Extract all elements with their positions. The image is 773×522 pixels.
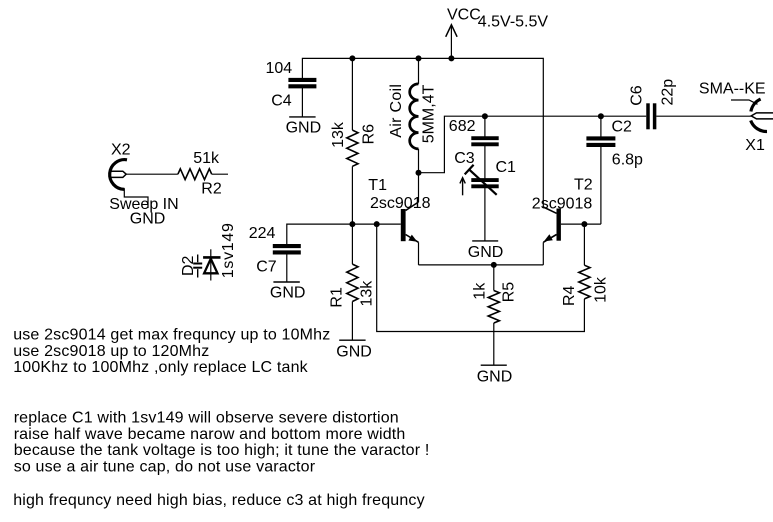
svg-text:SMA--KE: SMA--KE [699, 81, 766, 98]
svg-text:R4: R4 [561, 285, 578, 306]
capacitor C6 22p [629, 79, 752, 130]
connector X1 SMA--KE [699, 81, 773, 154]
junction dot VCC arrow [448, 55, 454, 61]
svg-text:2sc9018: 2sc9018 [532, 195, 593, 212]
ground GND under R1 [336, 340, 372, 360]
power symbol VCC arrow [446, 25, 457, 59]
junction dot C2 top [598, 113, 604, 119]
transistor T1 2sc9018 [368, 173, 430, 265]
svg-text:use 2sc9014 get max frequncy u: use 2sc9014 get max frequncy up to 10Mhz [13, 327, 330, 344]
svg-text:10k: 10k [593, 276, 610, 303]
wire feedback to R4 bottom [377, 224, 585, 331]
wire coil bottom to tank line [419, 116, 647, 173]
junction dot base feedback [374, 221, 380, 227]
svg-text:C2: C2 [612, 118, 633, 135]
svg-text:GND: GND [130, 211, 166, 228]
svg-text:R1: R1 [329, 287, 346, 308]
svg-text:R2: R2 [201, 181, 222, 198]
svg-text:682: 682 [449, 118, 476, 135]
transistor T2 2sc9018 [532, 176, 593, 265]
svg-text:high frequncy need high bias,: high frequncy need high bias, reduce c3 … [13, 492, 425, 509]
svg-text:Air Coil: Air Coil [388, 84, 405, 138]
inductor L1 Air Coil 5MM,4T [388, 58, 438, 172]
svg-text:X1: X1 [745, 137, 765, 154]
svg-text:5MM,4T: 5MM,4T [421, 84, 438, 143]
connector X2 Sweep IN [109, 141, 178, 227]
svg-text:use 2sc9018 up to 120Mhz: use 2sc9018 up to 120Mhz [13, 343, 209, 360]
svg-text:VCC: VCC [447, 6, 481, 23]
svg-text:22p: 22p [660, 79, 677, 106]
capacitor C2 6.8p [586, 116, 643, 224]
svg-text:6.8p: 6.8p [612, 152, 643, 169]
svg-text:C1: C1 [496, 159, 517, 176]
svg-text:replace C1 with 1sv149 will ob: replace C1 with 1sv149 will observe seve… [14, 410, 399, 427]
svg-text:GND: GND [286, 119, 322, 136]
junction dot coil top [416, 55, 422, 61]
svg-text:T2: T2 [574, 176, 593, 193]
resistor R4 10k [561, 224, 609, 306]
junction dot base R1 [349, 221, 355, 227]
wire emitter line [419, 264, 544, 266]
svg-text:C4: C4 [271, 93, 292, 110]
svg-text:2sc9018: 2sc9018 [370, 195, 431, 212]
svg-text:so use a air tune cap, do not: so use a air tune cap, do not use varact… [14, 458, 316, 475]
junction dot R6 top [349, 55, 355, 61]
svg-text:4.5V-5.5V: 4.5V-5.5V [478, 14, 549, 31]
svg-text:R5: R5 [500, 282, 517, 303]
ground GND under C4 [286, 117, 322, 136]
net VCC rail [302, 58, 543, 207]
svg-text:100Khz to 100Mhz ,only replace: 100Khz to 100Mhz ,only replace LC tank [13, 359, 308, 376]
svg-text:C7: C7 [256, 259, 277, 276]
note text block 2 [14, 410, 430, 476]
note text block 1 [13, 327, 330, 377]
svg-text:GND: GND [468, 244, 504, 261]
svg-text:C3: C3 [454, 150, 475, 167]
ground GND under C1 [468, 241, 504, 261]
svg-text:X2: X2 [111, 141, 131, 158]
resistor R2 51k [178, 150, 228, 198]
junction dot R4 top [581, 221, 587, 227]
ground GND under R5 [477, 365, 513, 385]
svg-text:GND: GND [336, 343, 372, 360]
svg-text:51k: 51k [193, 150, 220, 167]
svg-text:13k: 13k [330, 121, 347, 148]
svg-text:GND: GND [477, 369, 513, 386]
svg-text:1sv149: 1sv149 [220, 222, 237, 278]
capacitor C4 104 [266, 60, 317, 117]
svg-text:GND: GND [270, 285, 306, 302]
svg-text:raise half wave became narow a: raise half wave became narow and bottom … [14, 426, 406, 443]
capacitor C3 682 [449, 116, 499, 180]
svg-text:1k: 1k [472, 282, 489, 300]
svg-text:104: 104 [266, 60, 293, 77]
svg-text:D2: D2 [180, 255, 197, 276]
svg-text:C6: C6 [629, 85, 646, 106]
svg-text:because the tank voltage is to: because the tank voltage is too high; it… [14, 442, 430, 459]
annotation arrow up at C3 [460, 178, 465, 196]
capacitor C1 trimmer [465, 159, 516, 241]
wire T1 base line [287, 224, 401, 246]
capacitor C7 224 [249, 225, 301, 282]
resistor R1 13k [329, 224, 376, 340]
diode D2 varactor 1sv149 [180, 222, 237, 280]
ground GND under C7 [270, 282, 306, 302]
svg-text:R6: R6 [360, 124, 377, 145]
resistor R5 1k [472, 265, 518, 365]
resistor R6 13k [330, 58, 377, 224]
svg-text:224: 224 [249, 225, 276, 242]
svg-text:13k: 13k [359, 280, 376, 307]
junction dot C3 top [482, 113, 488, 119]
svg-text:T1: T1 [368, 177, 387, 194]
wire T2 base line [561, 223, 601, 225]
junction dot R5 top [491, 262, 497, 268]
junction dot coil bottom [416, 170, 422, 176]
